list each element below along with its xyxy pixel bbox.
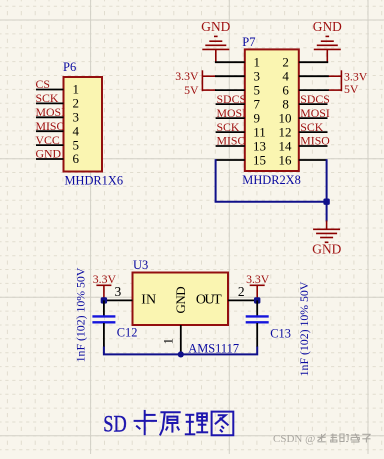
svg-text:GND: GND xyxy=(312,242,341,257)
svg-text:11: 11 xyxy=(253,124,266,139)
svg-text:12: 12 xyxy=(279,124,292,139)
svg-text:8: 8 xyxy=(282,96,289,111)
svg-text:C13: C13 xyxy=(270,326,291,340)
wire P7 pin4 xyxy=(299,75,329,77)
title text SD卡原理图 (SD card schematic) xyxy=(103,410,233,437)
svg-text:3: 3 xyxy=(73,110,80,125)
svg-text:VCC: VCC xyxy=(36,133,60,147)
wire U3 pin1 (GND) down xyxy=(180,325,182,354)
svg-text:4: 4 xyxy=(73,123,80,138)
svg-text:3: 3 xyxy=(254,69,261,84)
svg-text:SCK: SCK xyxy=(300,120,323,134)
svg-text:14: 14 xyxy=(279,138,293,153)
svg-text:1: 1 xyxy=(73,82,80,97)
svg-text:GND: GND xyxy=(36,147,62,161)
svg-text:3.3V: 3.3V xyxy=(175,69,199,83)
svg-text:SCK: SCK xyxy=(217,120,240,134)
wire P7 pin 7 (SDCS left) xyxy=(216,103,245,105)
wire P7 pin 8 (SDCS right) xyxy=(299,103,328,105)
svg-text:16: 16 xyxy=(279,152,293,167)
svg-text:2: 2 xyxy=(238,284,245,299)
svg-text:5V: 5V xyxy=(184,83,199,97)
power port GND top-right: ground symbol xyxy=(314,36,341,62)
svg-text:6: 6 xyxy=(282,82,289,97)
wire P7 pin 11 (SCK left) xyxy=(216,131,245,133)
svg-text:SCK: SCK xyxy=(36,91,59,105)
svg-text:2: 2 xyxy=(282,55,289,70)
connector P7 body xyxy=(245,49,299,171)
connector P6 body xyxy=(64,77,103,172)
ground symbol bottom xyxy=(313,221,340,243)
svg-text:IN: IN xyxy=(141,293,156,308)
svg-text:5: 5 xyxy=(254,82,261,97)
wire P7 pin 14 (MISO right) xyxy=(299,145,328,147)
svg-text:SDCS: SDCS xyxy=(300,92,330,106)
svg-text:GND: GND xyxy=(173,287,188,314)
svg-text:7: 7 xyxy=(254,96,261,111)
svg-text:MHDR2X8: MHDR2X8 xyxy=(242,173,301,187)
P6 pin 4 wire xyxy=(36,130,64,132)
junction at GND net xyxy=(323,199,329,205)
svg-text:6: 6 xyxy=(73,151,80,166)
svg-text:5V: 5V xyxy=(344,82,359,96)
power port 3.3V/5V bar left xyxy=(202,70,215,91)
capacitor C13 xyxy=(246,300,269,347)
svg-text:3: 3 xyxy=(115,284,122,299)
wire P7 pin 10 (MOSI right) xyxy=(299,117,328,119)
wire P7 pin3 xyxy=(215,75,245,77)
svg-text:3.3V: 3.3V xyxy=(246,272,270,286)
svg-text:9: 9 xyxy=(254,110,261,125)
regulator U3 body xyxy=(133,273,229,326)
wire U3 pin3 (IN) xyxy=(104,299,133,301)
svg-text:MISO: MISO xyxy=(36,119,66,133)
svg-text:15: 15 xyxy=(253,152,266,167)
svg-text:4: 4 xyxy=(282,69,289,84)
svg-text:MOSI: MOSI xyxy=(36,105,66,119)
svg-text:P7: P7 xyxy=(242,35,255,49)
svg-text:1: 1 xyxy=(254,55,261,70)
svg-text:1nF (102) 10% 50V: 1nF (102) 10% 50V xyxy=(73,267,87,362)
wire P7 pin1 to GND xyxy=(215,61,245,63)
svg-text:CS: CS xyxy=(36,77,50,91)
svg-text:SDCS: SDCS xyxy=(217,92,247,106)
wire P7 pin 12 (SCK right) xyxy=(299,131,328,133)
wire P7 pin6 xyxy=(299,89,329,91)
svg-text:10: 10 xyxy=(279,110,292,125)
svg-text:5: 5 xyxy=(73,137,80,152)
wire U3 pin2 (OUT) xyxy=(228,299,257,301)
junction U3 pin1 / rail xyxy=(178,351,184,357)
svg-text:OUT: OUT xyxy=(196,293,222,308)
svg-text:1nF (102) 10% 50V: 1nF (102) 10% 50V xyxy=(297,281,311,376)
svg-text:13: 13 xyxy=(253,138,266,153)
svg-text:MOSI: MOSI xyxy=(217,106,247,120)
P6 pin 2 wire xyxy=(36,102,64,104)
wire pin15 down-left vertical xyxy=(215,159,217,202)
P6 pin 5 wire xyxy=(36,144,64,146)
svg-text:C12: C12 xyxy=(117,326,138,340)
P6 pin 3 wire xyxy=(36,116,64,118)
wire pin16 down vertical to ground xyxy=(326,159,328,221)
svg-text:MOSI: MOSI xyxy=(300,106,330,120)
svg-text:U3: U3 xyxy=(133,258,148,272)
P6 pin 6 wire xyxy=(36,158,64,160)
svg-text:MISO: MISO xyxy=(217,134,247,148)
svg-text:1: 1 xyxy=(162,338,176,344)
wire bottom horizontal to junction xyxy=(215,201,327,203)
watermark CSDN @迷信的兔子 xyxy=(273,433,371,445)
power port 3.3V bottom right xyxy=(246,272,270,300)
svg-text:MISO: MISO xyxy=(300,134,330,148)
power port GND top-left: ground symbol xyxy=(202,36,229,62)
junction 3.3V/OUT/C13 xyxy=(254,297,260,303)
svg-text:SD: SD xyxy=(103,412,126,437)
svg-text:MHDR1X6: MHDR1X6 xyxy=(65,174,124,188)
wire P7 pin5 xyxy=(215,89,245,91)
svg-text:GND: GND xyxy=(201,19,230,34)
wire P7 pin16 stub xyxy=(299,159,327,161)
power port 3.3V/5V bar right xyxy=(328,70,341,91)
svg-text:3.3V: 3.3V xyxy=(93,272,117,286)
svg-text:CSDN @: CSDN @ xyxy=(273,433,315,445)
capacitor C12 xyxy=(92,300,115,347)
svg-text:P6: P6 xyxy=(63,60,76,74)
wire ground rail bottom xyxy=(104,347,257,355)
wire P7 pin15 stub xyxy=(216,159,245,161)
wire P7 pin2 to GND xyxy=(299,61,328,63)
wire P7 pin 9 (MOSI left) xyxy=(216,117,245,119)
power port 3.3V bottom left xyxy=(93,272,117,300)
wire P7 pin 13 (MISO left) xyxy=(216,145,245,147)
junction 3.3V/IN/C12 xyxy=(101,297,107,303)
P6 pin 1 wire xyxy=(36,89,64,91)
svg-text:GND: GND xyxy=(313,19,342,34)
svg-text:2: 2 xyxy=(73,96,80,111)
